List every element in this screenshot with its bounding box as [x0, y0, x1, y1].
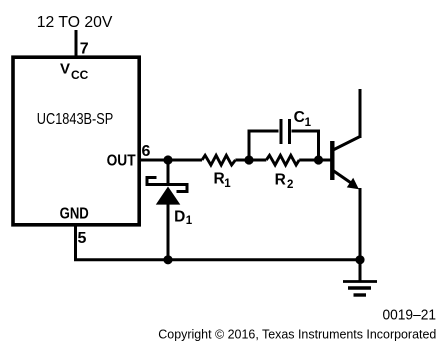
node junction dot emitter/ground rail [355, 255, 364, 264]
wire R2 to base segment [299, 159, 330, 162]
svg-text:2: 2 [287, 179, 293, 191]
svg-text:CC: CC [71, 68, 89, 82]
wire D1 anode lead [167, 203, 170, 260]
wire ground rail [74, 258, 360, 261]
svg-text:7: 7 [80, 41, 89, 58]
svg-text:6: 6 [142, 143, 151, 160]
svg-text:C: C [294, 109, 305, 126]
resistor R1 zigzag [202, 155, 235, 165]
wire Vcc supply stub [75, 30, 78, 58]
node junction dot OUT/D1 [163, 155, 172, 164]
transistor Q1 collector diagonal [333, 137, 360, 151]
svg-text:12 TO 20V: 12 TO 20V [37, 14, 113, 31]
wire C1 right branch [292, 131, 319, 160]
svg-text:1: 1 [305, 117, 312, 129]
wire C1 left branch [249, 131, 279, 160]
transistor Q1 emitter diagonal [333, 171, 354, 186]
wire D1 cathode lead [167, 160, 170, 183]
wire collector vertical [359, 89, 362, 138]
svg-text:R: R [275, 172, 286, 189]
wire emitter vertical [359, 188, 362, 260]
ground symbol bars [343, 280, 377, 283]
svg-text:Copyright © 2016, Texas Instru: Copyright © 2016, Texas Instruments Inco… [158, 326, 436, 341]
svg-text:D: D [174, 209, 185, 226]
svg-text:1: 1 [224, 178, 231, 190]
node junction dot R2/C1/base [314, 155, 323, 164]
node junction dot R1/R2/C1 [244, 155, 253, 164]
wire OUT pin 6 segment [140, 159, 202, 162]
svg-text:GND: GND [60, 206, 89, 223]
wire R1 to R2 segment [235, 159, 266, 162]
transistor Q1 base bar [330, 141, 334, 180]
transistor Q1 emitter arrowhead [347, 178, 359, 190]
svg-text:OUT: OUT [107, 152, 136, 169]
resistor R2 zigzag [266, 155, 299, 165]
capacitor C1 plates [280, 119, 283, 144]
svg-text:1: 1 [186, 215, 193, 227]
IC U1 box UC1843B-SP [13, 57, 139, 225]
diode D1 anode triangle [156, 187, 181, 205]
svg-text:V: V [60, 60, 70, 77]
svg-text:5: 5 [78, 230, 87, 247]
wire pin5 GND lead [74, 224, 77, 260]
svg-text:R: R [214, 170, 225, 187]
svg-text:0019–21: 0019–21 [383, 307, 437, 324]
svg-text:UC1843B-SP: UC1843B-SP [37, 111, 114, 128]
node junction dot D1/ground rail [163, 255, 172, 264]
diode D1 zener cathode bar with hooks [147, 178, 187, 192]
ground symbol stem [359, 260, 362, 281]
